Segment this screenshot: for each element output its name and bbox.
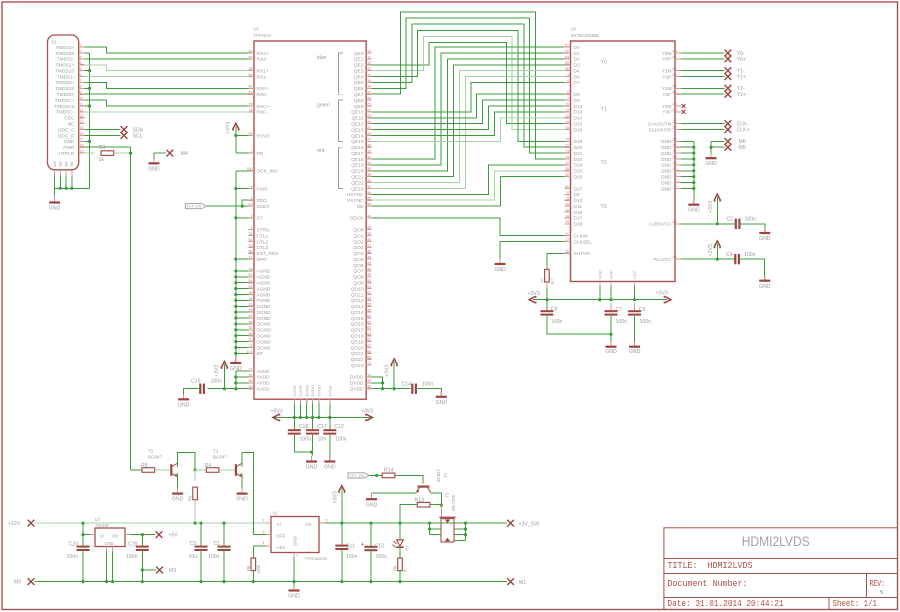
svg-text:65: 65 [367, 338, 371, 342]
svg-text:GND: GND [629, 349, 641, 355]
svg-text:64: 64 [367, 332, 371, 336]
svg-text:M4: M4 [181, 151, 188, 157]
svg-text:D16: D16 [574, 210, 583, 216]
svg-text:GND: GND [661, 145, 672, 151]
svg-text:D28: D28 [574, 222, 583, 228]
svg-text:TMDS0+: TMDS0+ [55, 80, 74, 86]
svg-text:X1: X1 [52, 40, 58, 45]
svg-text:78L05F: 78L05F [95, 523, 110, 528]
svg-text:15: 15 [80, 126, 84, 130]
svg-text:QE22: QE22 [351, 180, 364, 186]
svg-text:79: 79 [249, 102, 253, 106]
svg-text:DVDD: DVDD [350, 381, 364, 387]
svg-text:TMDS1+: TMDS1+ [55, 63, 74, 69]
svg-text:AVDD: AVDD [257, 369, 271, 375]
svg-text:40: 40 [673, 102, 677, 106]
svg-text:100n: 100n [640, 319, 652, 325]
svg-text:AVDD: AVDD [257, 375, 271, 381]
svg-text:87: 87 [249, 55, 253, 59]
svg-text:3: 3 [567, 73, 569, 77]
svg-text:DVDD: DVDD [292, 385, 297, 396]
svg-text:9: 9 [80, 91, 82, 95]
svg-text:GND: GND [366, 503, 378, 509]
svg-text:25: 25 [249, 309, 253, 313]
svg-text:DVDD: DVDD [304, 385, 309, 396]
svg-text:GND: GND [661, 139, 672, 145]
svg-text:D13: D13 [574, 110, 583, 116]
svg-text:51: 51 [565, 44, 569, 48]
svg-text:10: 10 [367, 49, 371, 53]
svg-text:60: 60 [367, 314, 371, 318]
svg-text:QO4: QO4 [353, 251, 363, 257]
svg-text:10u: 10u [189, 554, 198, 560]
svg-text:Y1M: Y1M [662, 68, 672, 74]
svg-text:AGND: AGND [257, 281, 271, 287]
svg-text:GND: GND [324, 465, 336, 471]
svg-text:SHTDN: SHTDN [574, 251, 591, 257]
svg-text:R6: R6 [188, 495, 193, 501]
svg-text:63: 63 [367, 326, 371, 330]
svg-text:C13: C13 [375, 544, 385, 550]
svg-text:GND: GND [436, 400, 448, 406]
svg-text:U2: U2 [254, 27, 260, 32]
svg-text:2: 2 [80, 49, 82, 53]
svg-text:QO6: QO6 [353, 263, 363, 269]
svg-text:BC847: BC847 [148, 455, 162, 460]
svg-text:EXT_RES: EXT_RES [257, 251, 279, 257]
svg-text:95: 95 [249, 385, 253, 389]
svg-text:C2: C2 [727, 217, 734, 223]
svg-text:IRF7205: IRF7205 [451, 494, 456, 511]
svg-text:OGND: OGND [257, 322, 272, 328]
svg-text:5: 5 [80, 67, 82, 71]
svg-text:C20: C20 [69, 541, 79, 547]
svg-text:37: 37 [673, 126, 677, 130]
svg-text:QE0: QE0 [354, 51, 364, 57]
svg-text:Y3: Y3 [601, 204, 607, 210]
svg-text:32: 32 [565, 250, 569, 254]
svg-text:43: 43 [367, 256, 371, 260]
svg-text:13: 13 [80, 114, 84, 118]
svg-text:38: 38 [673, 120, 677, 124]
svg-text:12: 12 [367, 61, 371, 65]
svg-text:GND: GND [178, 402, 190, 408]
svg-text:5: 5 [675, 185, 677, 189]
svg-text:100n: 100n [551, 319, 563, 325]
svg-text:GND: GND [759, 284, 771, 290]
svg-text:24: 24 [367, 120, 371, 124]
svg-text:VO: VO [112, 534, 119, 539]
svg-text:D11: D11 [574, 204, 583, 210]
svg-text:T4: T4 [443, 472, 448, 478]
svg-text:DVDD: DVDD [298, 385, 303, 396]
svg-text:QE14: QE14 [351, 133, 364, 139]
svg-text:GND: GND [661, 186, 672, 192]
svg-text:37: 37 [367, 185, 371, 189]
svg-text:+3V3: +3V3 [528, 291, 540, 297]
svg-text:28: 28 [565, 167, 569, 171]
svg-text:BC847: BC847 [213, 455, 227, 460]
svg-text:4: 4 [263, 541, 265, 545]
svg-text:70: 70 [249, 338, 253, 342]
svg-text:QO0: QO0 [353, 227, 363, 233]
svg-text:Y0+: Y0+ [737, 57, 746, 63]
svg-text:QE2: QE2 [354, 63, 364, 69]
svg-text:PVDD: PVDD [327, 385, 332, 396]
svg-text:25: 25 [565, 220, 569, 224]
svg-text:84: 84 [249, 73, 253, 77]
svg-text:C15: C15 [191, 379, 201, 385]
svg-text:58: 58 [249, 320, 253, 324]
svg-text:14: 14 [367, 73, 371, 77]
svg-text:91: 91 [249, 232, 253, 236]
svg-text:22: 22 [367, 108, 371, 112]
svg-text:6: 6 [567, 91, 569, 95]
svg-text:41: 41 [367, 244, 371, 248]
svg-text:4k7: 4k7 [550, 279, 555, 285]
svg-text:28: 28 [367, 379, 371, 383]
svg-text:9: 9 [251, 197, 253, 201]
svg-text:92: 92 [249, 238, 253, 242]
svg-text:16: 16 [565, 208, 569, 212]
svg-text:RX2+: RX2+ [257, 51, 269, 57]
svg-text:GND: GND [148, 166, 160, 172]
svg-text:QO16: QO16 [351, 322, 364, 328]
svg-text:GND: GND [172, 497, 184, 503]
svg-text:QE4: QE4 [354, 74, 364, 80]
svg-text:Y2P: Y2P [662, 92, 671, 98]
svg-text:AGND: AGND [257, 292, 271, 298]
svg-text:R14: R14 [384, 468, 394, 474]
svg-text:5: 5 [326, 519, 328, 523]
svg-text:CLKOUTP: CLKOUTP [649, 127, 672, 133]
svg-text:44: 44 [673, 220, 677, 224]
svg-text:DGND: DGND [257, 316, 272, 322]
svg-text:M3: M3 [65, 162, 69, 167]
svg-text:QE20: QE20 [351, 169, 364, 175]
svg-text:QE17: QE17 [351, 151, 364, 157]
svg-text:TMDS0-: TMDS0- [57, 92, 75, 98]
svg-text:35: 35 [249, 297, 253, 301]
svg-text:34: 34 [673, 256, 677, 260]
svg-text:D6: D6 [574, 74, 580, 80]
svg-text:QE3: QE3 [354, 68, 364, 74]
svg-text:D24: D24 [574, 163, 583, 169]
svg-text:QE12: QE12 [351, 121, 364, 127]
svg-text:DGND: DGND [257, 310, 272, 316]
svg-text:15: 15 [367, 79, 371, 83]
svg-text:100n: 100n [422, 381, 434, 387]
svg-text:50: 50 [565, 185, 569, 189]
svg-text:D4: D4 [574, 68, 580, 74]
svg-text:22: 22 [565, 144, 569, 148]
svg-text:81: 81 [249, 91, 253, 95]
svg-text:RSVD: RSVD [257, 133, 271, 139]
svg-text:PGND: PGND [257, 298, 271, 304]
svg-text:QO14: QO14 [351, 310, 364, 316]
svg-text:18: 18 [80, 144, 84, 148]
svg-text:RX2-: RX2- [257, 57, 268, 63]
svg-text:D5: D5 [574, 192, 580, 198]
svg-text:OGND: OGND [257, 339, 272, 345]
svg-text:RXC+: RXC+ [257, 104, 270, 110]
svg-text:TFT_EN: TFT_EN [187, 204, 202, 209]
svg-text:27: 27 [367, 138, 371, 142]
svg-text:TMDSC-: TMDSC- [56, 110, 75, 116]
svg-text:D16: D16 [574, 127, 583, 133]
svg-text:QO9: QO9 [353, 281, 363, 287]
svg-text:11: 11 [367, 55, 371, 59]
svg-text:32: 32 [367, 155, 371, 159]
svg-text:C7: C7 [616, 307, 623, 313]
svg-text:1: 1 [80, 44, 82, 48]
svg-text:PDO: PDO [257, 198, 268, 204]
svg-text:T1: T1 [213, 449, 219, 454]
svg-text:QE23: QE23 [351, 186, 364, 192]
svg-text:QE18: QE18 [351, 157, 364, 163]
svg-text:QO18: QO18 [351, 334, 364, 340]
svg-text:D20: D20 [574, 145, 583, 151]
svg-text:CEC: CEC [64, 116, 75, 122]
svg-text:Y3M: Y3M [662, 104, 672, 110]
svg-text:52: 52 [565, 49, 569, 53]
svg-text:68: 68 [367, 350, 371, 354]
svg-text:100u: 100u [376, 554, 388, 560]
svg-text:Y2M: Y2M [662, 86, 672, 92]
svg-text:ODCK: ODCK [350, 216, 365, 222]
svg-text:PD: PD [257, 151, 264, 157]
svg-text:98: 98 [249, 291, 253, 295]
svg-text:AGND: AGND [257, 286, 271, 292]
svg-text:RX1-: RX1- [257, 74, 268, 80]
svg-text:D22: D22 [574, 157, 583, 163]
svg-text:2: 2 [263, 519, 265, 523]
svg-text:GND: GND [236, 497, 248, 503]
svg-text:24: 24 [565, 155, 569, 159]
svg-text:10: 10 [565, 203, 569, 207]
svg-text:H1: H1 [405, 545, 410, 551]
svg-text:17: 17 [367, 91, 371, 95]
svg-text:27: 27 [565, 161, 569, 165]
svg-text:54: 54 [565, 55, 569, 59]
svg-text:C8: C8 [551, 307, 558, 313]
svg-text:QE8: QE8 [354, 98, 364, 104]
svg-text:SCL: SCL [133, 133, 143, 139]
svg-text:+3V3: +3V3 [271, 409, 283, 415]
svg-text:17: 17 [565, 238, 569, 242]
svg-text:GND: GND [105, 541, 114, 546]
svg-text:+5V: +5V [169, 533, 179, 539]
svg-text:AVDD: AVDD [257, 387, 271, 393]
svg-text:Y1P: Y1P [662, 74, 671, 80]
svg-text:13: 13 [249, 303, 253, 307]
svg-text:14: 14 [80, 120, 84, 124]
svg-text:QO15: QO15 [351, 316, 364, 322]
svg-text:T2: T2 [148, 449, 154, 454]
svg-text:TMDS2S: TMDS2S [55, 51, 74, 57]
svg-text:QE19: QE19 [351, 163, 364, 169]
svg-text:57: 57 [367, 303, 371, 307]
svg-text:Y2: Y2 [601, 160, 607, 166]
svg-text:R8: R8 [246, 565, 251, 571]
svg-text:4: 4 [567, 79, 569, 83]
svg-text:2: 2 [567, 191, 569, 195]
svg-text:QE7: QE7 [354, 92, 364, 98]
svg-text:100n: 100n [616, 319, 628, 325]
svg-text:TITLE: HDMI2LVDS: TITLE: HDMI2LVDS [668, 561, 753, 571]
svg-text:+12V: +12V [8, 521, 21, 527]
svg-text:DDC_C: DDC_C [58, 127, 75, 133]
svg-text:93: 93 [249, 244, 253, 248]
svg-text:30: 30 [565, 173, 569, 177]
svg-text:10: 10 [673, 167, 677, 171]
svg-text:45: 45 [673, 73, 677, 77]
svg-text:AGND: AGND [257, 275, 271, 281]
svg-text:7: 7 [567, 97, 569, 101]
svg-text:4: 4 [80, 61, 82, 65]
svg-text:14: 14 [565, 120, 569, 124]
svg-text:D17: D17 [574, 216, 583, 222]
svg-text:M2: M2 [59, 162, 63, 167]
svg-text:18: 18 [565, 214, 569, 218]
svg-text:+3V3: +3V3 [385, 365, 391, 377]
svg-text:ST: ST [257, 216, 263, 222]
svg-text:100k: 100k [256, 564, 261, 574]
svg-text:TMDS2-: TMDS2- [57, 57, 75, 63]
svg-text:GND: GND [705, 161, 717, 167]
svg-text:QE6: QE6 [354, 86, 364, 92]
svg-text:35: 35 [367, 173, 371, 177]
svg-text:OGND: OGND [257, 345, 272, 351]
svg-text:QE15: QE15 [351, 139, 364, 145]
svg-text:78: 78 [249, 108, 253, 112]
svg-text:Y1: Y1 [601, 107, 607, 113]
svg-text:77: 77 [249, 367, 253, 371]
svg-text:QE16: QE16 [351, 145, 364, 151]
svg-text:D10: D10 [574, 198, 583, 204]
svg-text:62: 62 [249, 326, 253, 330]
svg-text:s: s [880, 589, 884, 596]
svg-text:34: 34 [367, 167, 371, 171]
svg-text:TMDSC+: TMDSC+ [55, 98, 75, 104]
svg-text:HDMI2LVDS: HDMI2LVDS [742, 534, 810, 549]
svg-text:50: 50 [367, 279, 371, 283]
svg-text:CTL3: CTL3 [257, 245, 269, 251]
svg-text:PTN78000W: PTN78000W [305, 556, 328, 561]
svg-text:OGND: OGND [257, 328, 272, 334]
svg-text:D1: D1 [574, 51, 580, 57]
svg-text:D3: D3 [574, 63, 580, 69]
svg-text:42: 42 [367, 250, 371, 254]
svg-text:C1: C1 [214, 541, 221, 547]
svg-text:21: 21 [367, 102, 371, 106]
svg-text:16: 16 [367, 85, 371, 89]
svg-text:D14: D14 [574, 116, 583, 122]
svg-text:QO2: QO2 [353, 239, 363, 245]
svg-text:66: 66 [249, 332, 253, 336]
svg-text:31: 31 [367, 150, 371, 154]
svg-text:GND: GND [661, 180, 672, 186]
svg-text:GND: GND [64, 139, 75, 145]
svg-text:Sheet: 1/1: Sheet: 1/1 [833, 599, 878, 609]
svg-text:DE: DE [357, 204, 364, 210]
svg-text:12: 12 [565, 108, 569, 112]
svg-text:D26: D26 [574, 174, 583, 180]
svg-text:CLKIN: CLKIN [574, 233, 589, 239]
svg-text:R9: R9 [393, 565, 398, 571]
svg-text:67: 67 [367, 344, 371, 348]
svg-text:54: 54 [367, 203, 371, 207]
svg-text:1: 1 [251, 214, 253, 218]
svg-text:8: 8 [80, 85, 82, 89]
svg-text:29: 29 [673, 155, 677, 159]
svg-text:RX0-: RX0- [257, 92, 268, 98]
svg-text:13: 13 [367, 67, 371, 71]
svg-text:42: 42 [673, 85, 677, 89]
svg-text:CLK+: CLK+ [737, 127, 750, 133]
svg-text:18: 18 [673, 161, 677, 165]
svg-text:M1: M1 [519, 580, 526, 586]
svg-text:Y1+: Y1+ [737, 74, 746, 80]
svg-text:80: 80 [249, 373, 253, 377]
svg-text:QO12: QO12 [351, 298, 364, 304]
svg-text:QE11: QE11 [352, 116, 364, 122]
svg-text:36: 36 [367, 179, 371, 183]
svg-text:VO: VO [305, 522, 312, 527]
svg-text:DVDD: DVDD [310, 385, 315, 396]
svg-text:QE13: QE13 [351, 127, 364, 133]
svg-text:7: 7 [251, 226, 253, 230]
svg-text:PWR: PWR [63, 145, 75, 151]
svg-text:CTL1: CTL1 [257, 233, 269, 239]
svg-text:C6: C6 [639, 307, 646, 313]
svg-text:100n: 100n [300, 437, 312, 443]
svg-text:R4: R4 [205, 463, 212, 469]
svg-text:QO23: QO23 [351, 363, 364, 369]
svg-text:6: 6 [80, 73, 82, 77]
svg-text:QO19: QO19 [351, 339, 364, 345]
svg-text:17: 17 [80, 138, 84, 142]
svg-text:QE5: QE5 [354, 80, 364, 86]
svg-text:VCC: VCC [632, 270, 637, 279]
svg-text:QO22: QO22 [351, 357, 364, 363]
svg-text:AVDD: AVDD [257, 381, 271, 387]
svg-text:R3: R3 [99, 145, 106, 151]
svg-text:HTPLG: HTPLG [59, 151, 75, 157]
svg-text:PIXS: PIXS [257, 186, 268, 192]
svg-text:+3V3: +3V3 [226, 122, 232, 134]
svg-text:CLKSEL: CLKSEL [574, 239, 593, 245]
svg-text:VI: VI [277, 522, 281, 527]
svg-text:D21: D21 [574, 151, 583, 157]
svg-text:49: 49 [367, 273, 371, 277]
svg-text:OFF: OFF [277, 534, 286, 539]
svg-text:+3V3: +3V3 [332, 491, 338, 503]
svg-text:96: 96 [249, 250, 253, 254]
svg-text:GND: GND [49, 206, 61, 212]
svg-text:100n: 100n [126, 554, 138, 560]
svg-text:86: 86 [249, 379, 253, 383]
svg-text:C4: C4 [726, 252, 733, 258]
svg-text:+3V3: +3V3 [361, 409, 373, 415]
svg-text:GND: GND [759, 236, 771, 242]
svg-text:GND: GND [494, 267, 506, 273]
svg-text:82: 82 [249, 85, 253, 89]
svg-text:8: 8 [675, 179, 677, 183]
svg-text:31: 31 [673, 150, 677, 154]
svg-text:GND: GND [661, 174, 672, 180]
svg-text:QE21: QE21 [351, 174, 364, 180]
